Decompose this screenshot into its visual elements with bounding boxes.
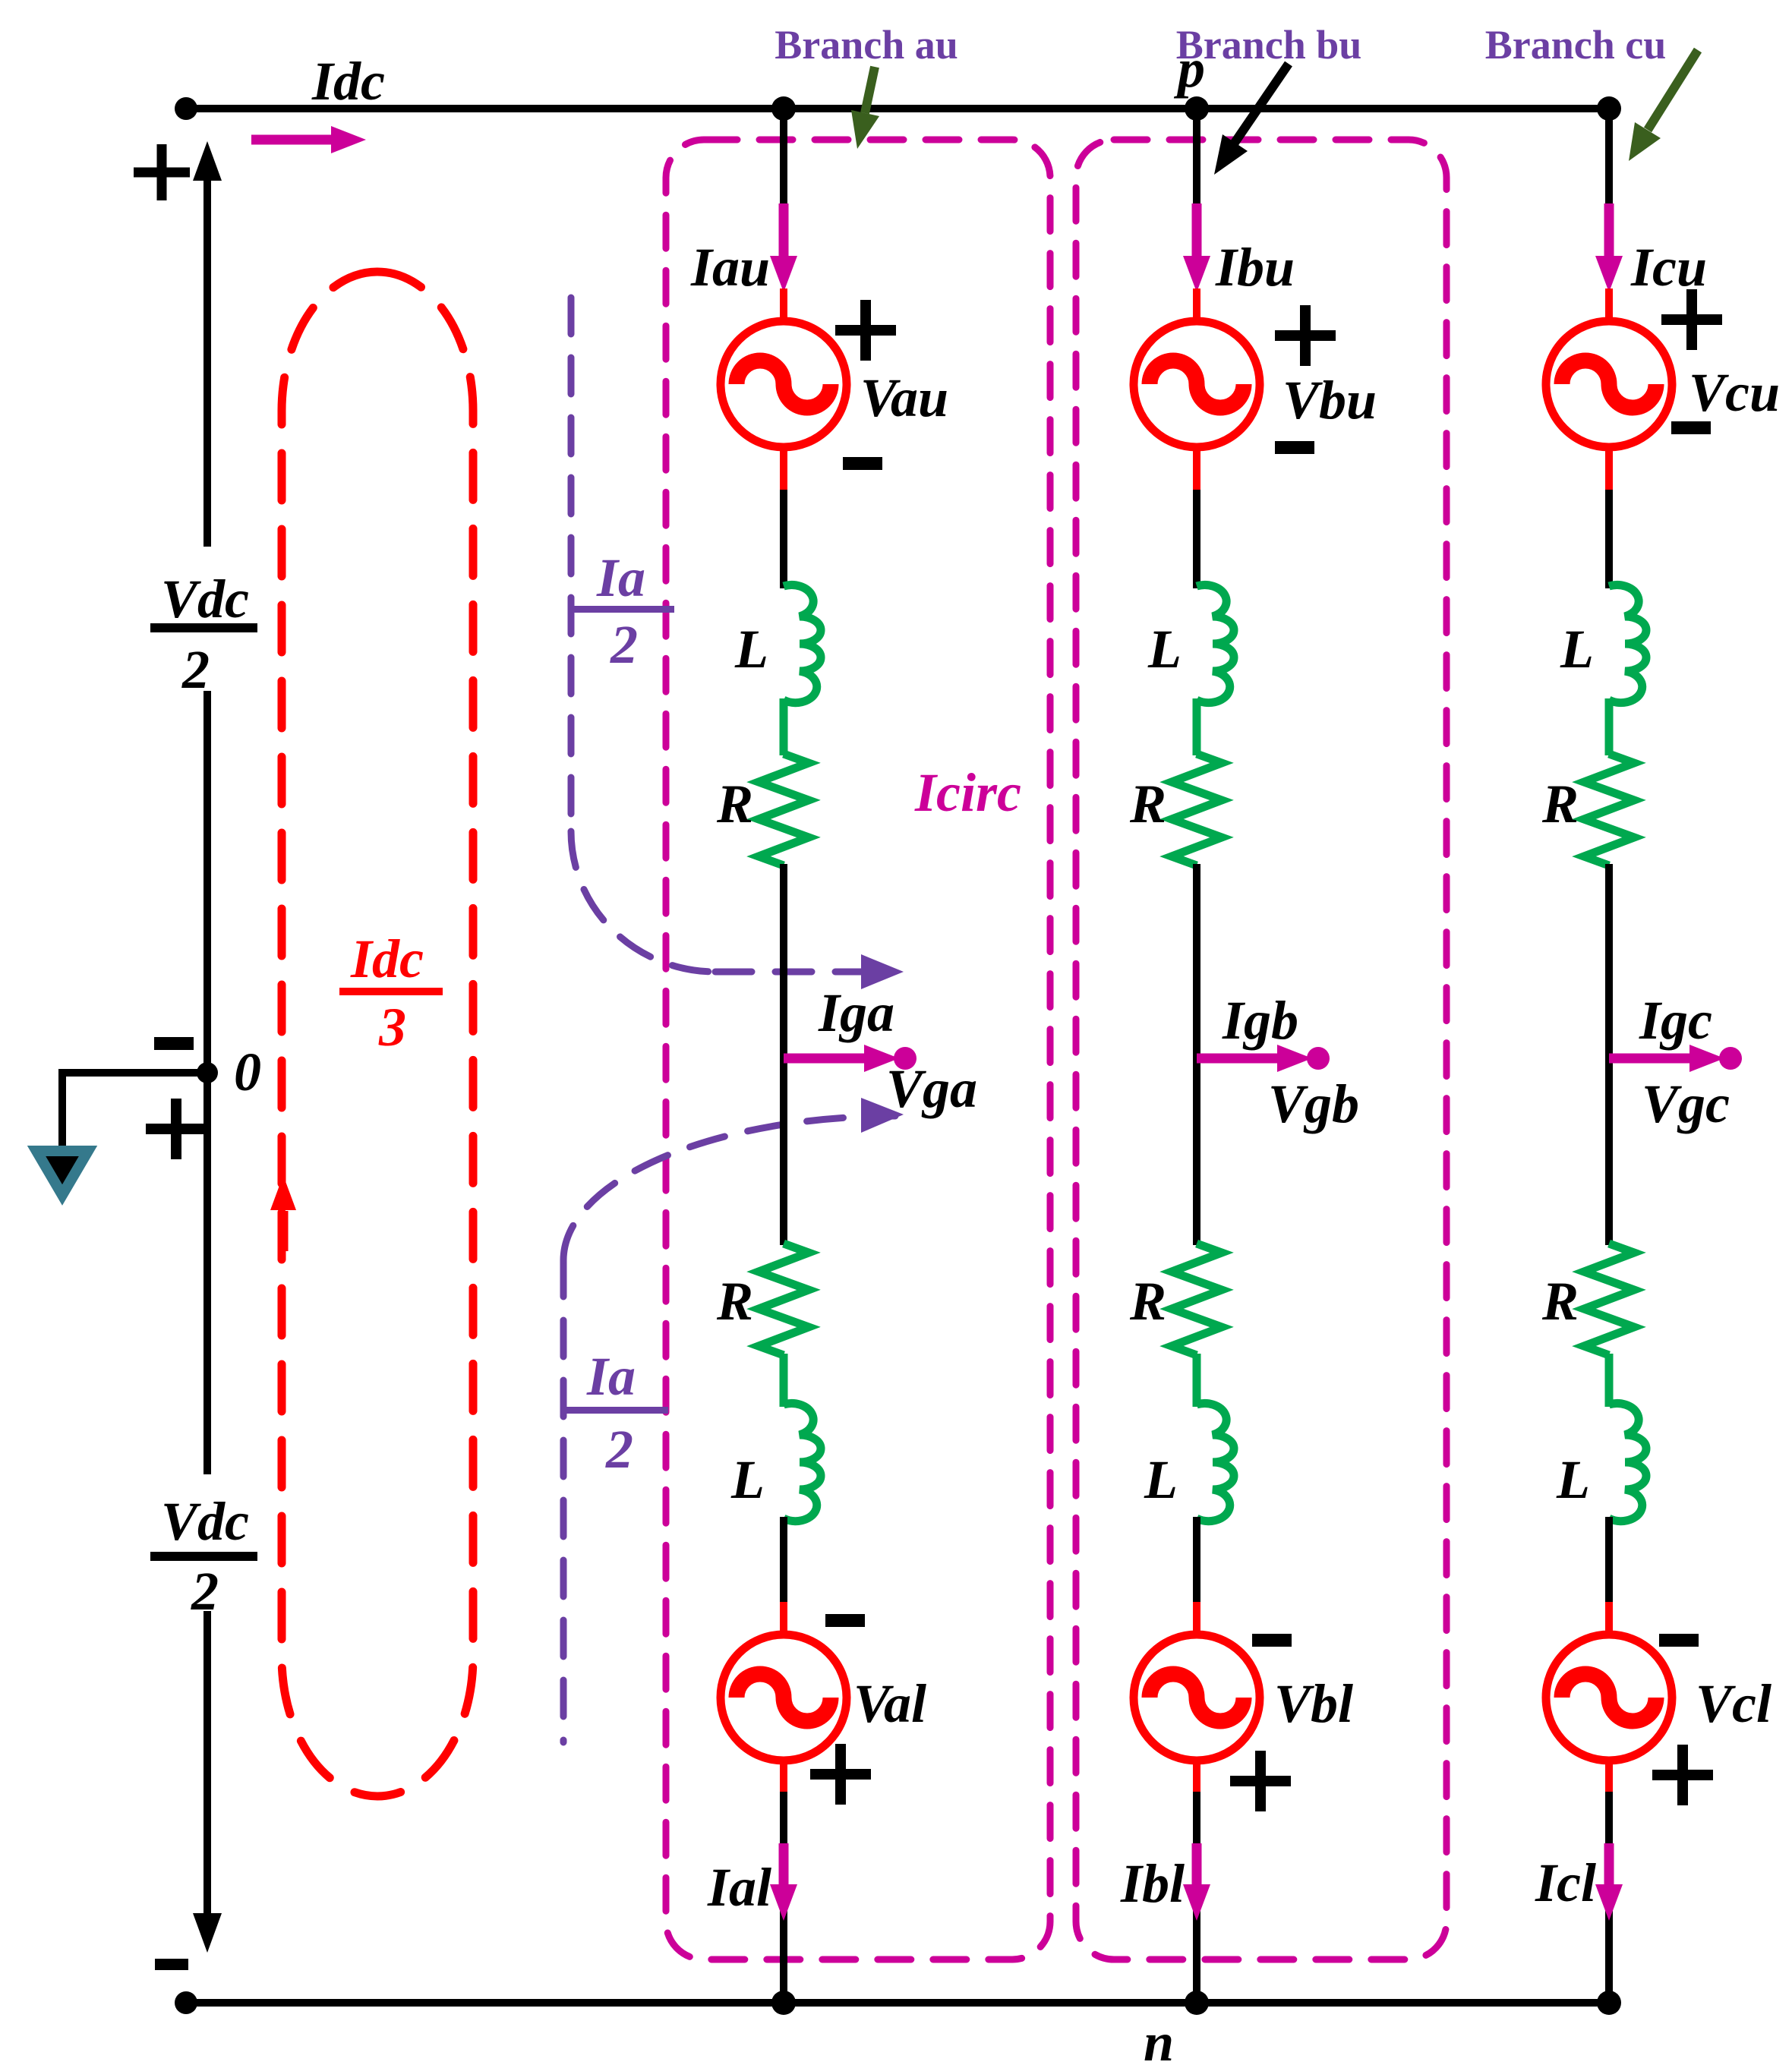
wire red stub below source Vbu — [1193, 447, 1200, 492]
wire red stub above source Vbl — [1193, 1602, 1200, 1636]
svg-text:Iau: Iau — [690, 237, 770, 298]
svg-text:Ia: Ia — [586, 1346, 636, 1407]
svg-text:Icu: Icu — [1630, 237, 1707, 298]
plus sign Vau — [835, 300, 896, 361]
wire branch b middle segment — [1193, 864, 1200, 1245]
minus sign Vcu — [1671, 421, 1711, 434]
wire black lower-arm segment branch b — [1193, 1517, 1200, 1606]
arrow Iga (magenta, right) with terminal dot — [784, 1054, 882, 1064]
svg-text:R: R — [716, 774, 753, 834]
svg-text:Vdc: Vdc — [161, 569, 249, 629]
wire branch b upper from bus — [1193, 109, 1200, 213]
svg-text:Vau: Vau — [860, 367, 948, 428]
svg-text:Ia: Ia — [596, 547, 645, 608]
AC source Vau (upper arm) — [721, 321, 847, 447]
arrow Igc (magenta, right) with terminal dot — [1609, 1054, 1708, 1064]
svg-text:Idc: Idc — [311, 51, 385, 112]
svg-text:Icirc: Icirc — [914, 762, 1021, 823]
minus sign Vau — [843, 457, 882, 470]
wire red stub above source Vbu — [1193, 288, 1200, 321]
wire black upper-arm segment branch b — [1193, 490, 1200, 588]
plus sign Vbu — [1275, 305, 1336, 366]
svg-text:Branch au: Branch au — [775, 22, 958, 68]
svg-text:Icl: Icl — [1535, 1852, 1596, 1913]
inductor L lower branch a — [784, 1404, 821, 1521]
svg-text:Ial: Ial — [707, 1857, 771, 1918]
voltage arrow Vdc lower (arrowhead down) — [203, 1611, 211, 1922]
wire top DC bus (node p rail) — [186, 105, 1610, 112]
junction dot top-left — [175, 97, 197, 120]
minus sign Vcl — [1659, 1634, 1699, 1647]
junction dot bottom-left — [175, 1991, 197, 2014]
fraction bar Vdc/2 lower — [150, 1552, 257, 1561]
ground symbol (teal triangle) — [36, 1151, 88, 1195]
plus sign Vcu — [1661, 289, 1722, 350]
minus sign Vbl — [1252, 1634, 1292, 1647]
wire left rail middle segment — [203, 691, 211, 1073]
svg-text:Igb: Igb — [1222, 990, 1298, 1051]
svg-text:L: L — [1560, 619, 1594, 679]
wire green link R-L lower branch b — [1193, 1354, 1201, 1407]
svg-text:R: R — [1541, 1271, 1579, 1332]
inductor L lower branch b — [1197, 1404, 1234, 1521]
svg-text:Ibl: Ibl — [1120, 1853, 1185, 1914]
wire branch a upper from bus — [780, 109, 787, 213]
junction dot node n branch a — [771, 1991, 796, 2015]
wire left rail lower segment — [203, 1073, 211, 1474]
inductor L upper branch b — [1197, 585, 1234, 703]
svg-text:Vdc: Vdc — [161, 1491, 249, 1552]
wire branch c to bottom bus — [1605, 1792, 1613, 2003]
svg-text:L: L — [730, 1449, 765, 1510]
arrow Igb (magenta, right) with terminal dot — [1197, 1054, 1295, 1064]
AC source Vbu (upper arm) — [1134, 321, 1260, 447]
svg-text:Vcl: Vcl — [1696, 1673, 1771, 1734]
wire red stub below source Vau — [780, 447, 787, 492]
svg-text:Val: Val — [853, 1673, 926, 1734]
arrow Icu (magenta, down) — [1604, 203, 1614, 258]
svg-text:Idc: Idc — [350, 928, 424, 989]
svg-text:p: p — [1173, 38, 1205, 99]
fraction bar Ia/2 lower (purple) — [566, 1407, 668, 1414]
junction dot node p branch b — [1185, 96, 1209, 121]
wire green link R-L lower branch a — [780, 1354, 788, 1407]
arrow Ibl (magenta, down) — [1192, 1843, 1202, 1887]
svg-text:Vgb: Vgb — [1268, 1073, 1359, 1134]
svg-text:Branch cu: Branch cu — [1485, 22, 1667, 68]
plus sign Val — [810, 1744, 871, 1805]
purple dashed arrow Ia/2 upper horizontal — [715, 969, 863, 976]
svg-text:n: n — [1144, 2012, 1174, 2065]
wire red stub below source Val — [780, 1760, 787, 1795]
wire branch a middle segment — [780, 864, 787, 1245]
wire green link L-R upper branch c — [1605, 698, 1614, 755]
minus sign Val — [825, 1614, 865, 1627]
svg-text:Iga: Iga — [818, 982, 894, 1043]
wire black upper-arm segment branch a — [780, 490, 787, 588]
minus sign bottom-left — [155, 1959, 188, 1970]
svg-text:L: L — [1144, 1449, 1178, 1510]
junction dot node n branch c — [1597, 1991, 1621, 2015]
resistor R lower branch c — [1584, 1244, 1634, 1355]
voltage arrow Vdc upper (left rail, arrowhead up) — [203, 171, 211, 547]
fraction bar Vdc/2 upper — [150, 623, 257, 632]
junction dot node p branch c — [1597, 96, 1621, 121]
arrow pointer Branch cu (dark green) — [1648, 50, 1698, 130]
arrow Ial (magenta, down) — [779, 1843, 789, 1887]
svg-text:2: 2 — [610, 614, 638, 675]
purple dashed arc Ia/2 upper — [571, 831, 715, 972]
AC source Vcl (lower arm) — [1546, 1635, 1672, 1761]
wire red stub above source Vcl — [1605, 1602, 1613, 1636]
AC source Val (lower arm) — [721, 1635, 847, 1761]
inductor L lower branch c — [1609, 1404, 1646, 1521]
svg-text:R: R — [1541, 774, 1579, 834]
svg-text:Vga: Vga — [886, 1058, 977, 1119]
arrow Ibu (magenta, down) — [1192, 203, 1202, 258]
minus sign Vbu — [1275, 441, 1314, 454]
wire branch c upper from bus — [1605, 109, 1613, 213]
AC source Vbl (lower arm) — [1134, 1635, 1260, 1761]
wire green link L-R upper branch b — [1193, 698, 1201, 755]
wire red stub above source Val — [780, 1602, 787, 1636]
arrow Iau (magenta, down) — [779, 203, 789, 258]
resistor R upper branch b — [1172, 754, 1222, 865]
svg-text:L: L — [1556, 1449, 1590, 1510]
purple dashed arc Ia/2 lower (to Vga) — [563, 1116, 895, 1260]
resistor R upper branch a — [759, 754, 809, 865]
wire black upper-arm segment branch c — [1605, 490, 1613, 588]
wire branch c middle segment — [1605, 864, 1613, 1245]
arrow Idc direction (magenta) — [251, 135, 340, 145]
purple dashed line Ia/2 upper vertical — [568, 298, 575, 831]
resistor R upper branch c — [1584, 754, 1634, 865]
ground wire tap — [62, 1073, 207, 1148]
fraction bar Ia/2 upper (purple) — [569, 606, 674, 613]
red dashed loop Idc/3 path — [282, 272, 473, 1796]
wire black lower-arm segment branch c — [1605, 1517, 1613, 1606]
wire red stub above source Vau — [780, 288, 787, 321]
minus sign above node 0 — [154, 1037, 194, 1050]
fraction bar Idc/3 (red) — [339, 988, 443, 995]
node 0 dot — [197, 1062, 218, 1083]
svg-text:3: 3 — [378, 997, 406, 1058]
wire red stub below source Vcu — [1605, 447, 1613, 492]
wire green link L-R upper branch a — [780, 698, 788, 755]
wire red stub above source Vcu — [1605, 288, 1613, 321]
wire black lower-arm segment branch a — [780, 1517, 787, 1606]
inductor L upper branch a — [784, 585, 821, 703]
plus sign Vcl — [1652, 1745, 1713, 1805]
wire green link R-L lower branch c — [1605, 1354, 1614, 1407]
junction dot node p branch a — [771, 96, 796, 121]
svg-text:Vgc: Vgc — [1642, 1073, 1730, 1134]
svg-text:R: R — [1129, 774, 1166, 834]
resistor R lower branch a — [759, 1244, 809, 1355]
wire red stub below source Vbl — [1193, 1760, 1200, 1795]
svg-text:L: L — [1147, 619, 1182, 679]
svg-text:2: 2 — [605, 1419, 633, 1480]
svg-text:0: 0 — [234, 1042, 261, 1102]
purple dashed line Ia/2 lower vertical — [560, 1260, 567, 1742]
wire branch b to bottom bus — [1193, 1792, 1200, 2003]
wire red stub below source Vcl — [1605, 1760, 1613, 1795]
inductor L upper branch c — [1609, 585, 1646, 703]
svg-text:R: R — [1129, 1271, 1166, 1332]
junction dot node n branch b — [1185, 1991, 1209, 2015]
arrow pointer Branch au (dark green) — [865, 67, 875, 113]
plus sign Vbl — [1230, 1751, 1291, 1811]
resistor R lower branch b — [1172, 1244, 1222, 1355]
svg-text:Vbl: Vbl — [1274, 1673, 1353, 1734]
svg-text:R: R — [716, 1271, 753, 1332]
svg-text:Igc: Igc — [1639, 990, 1712, 1051]
plus sign below node 0 — [146, 1099, 207, 1159]
arrow pointer Branch bu (black) — [1235, 64, 1289, 143]
svg-text:Vbu: Vbu — [1282, 370, 1377, 430]
plus sign top-left — [134, 144, 190, 200]
svg-text:Vcu: Vcu — [1689, 362, 1780, 423]
wire branch a to bottom bus — [780, 1792, 787, 2003]
red arrow up on loop — [279, 1211, 289, 1251]
arrow Icl (magenta, down) — [1604, 1843, 1614, 1887]
AC source Vcu (upper arm) — [1546, 321, 1672, 447]
svg-text:L: L — [734, 619, 768, 679]
wire bottom DC bus (node n rail) — [186, 1999, 1610, 2007]
magenta dashed loop Icirc box 2 — [1076, 140, 1447, 1959]
magenta dashed loop Icirc box 1 — [666, 140, 1050, 1959]
svg-text:Ibu: Ibu — [1215, 237, 1295, 298]
